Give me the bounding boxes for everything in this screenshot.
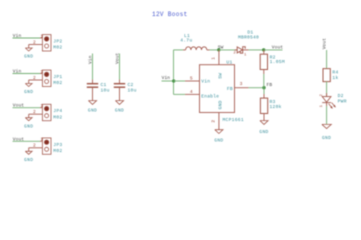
svg-text:1.05M: 1.05M [270, 59, 285, 65]
connector JP3 (M02) [29, 137, 63, 155]
svg-text:JP3: JP3 [53, 142, 62, 148]
svg-text:3: 3 [240, 81, 243, 87]
LED D2 (PWR) [320, 93, 347, 109]
svg-text:GND: GND [24, 89, 33, 95]
net label Vout (vertical) [115, 52, 121, 64]
wire Vin label stub [162, 80, 174, 82]
wire Vin to U1 Vin pin [174, 80, 186, 82]
op-amp U1 (MCP1661 boost converter IC) [185, 50, 249, 130]
svg-text:1: 1 [40, 33, 43, 39]
net label Vin [13, 33, 22, 39]
svg-text:2: 2 [33, 143, 36, 149]
capacitor C2 (10u) [114, 80, 137, 101]
ground for C1 [88, 101, 97, 114]
wire top rail to L1 [174, 49, 184, 51]
wire Vin to U1 Enable pin [174, 93, 186, 95]
svg-text:GND: GND [24, 54, 33, 60]
ground for JP2 [24, 45, 33, 60]
svg-text:FB: FB [227, 86, 233, 92]
svg-text:JP2: JP2 [53, 39, 62, 45]
svg-text:SW: SW [218, 73, 224, 79]
svg-text:Vout: Vout [272, 44, 284, 50]
ground for JP3 [24, 148, 33, 163]
wire Vout node to label [264, 49, 283, 51]
wire Vin to JP1 pin 1 [13, 73, 41, 75]
net label Vin [13, 69, 22, 75]
svg-text:C1: C1 [101, 82, 107, 88]
resistor R2 (1.05M) [260, 50, 285, 74]
svg-text:Vin: Vin [201, 79, 210, 85]
svg-text:5: 5 [190, 75, 193, 81]
ground for C2 [115, 101, 124, 114]
svg-text:PWR: PWR [338, 98, 347, 104]
wire SW node to D1 anode [219, 49, 237, 51]
svg-text:12V Boost: 12V Boost [152, 11, 188, 18]
svg-text:M02: M02 [53, 148, 62, 154]
resistor R3 (120k) [260, 94, 281, 121]
svg-text:GND: GND [24, 123, 33, 129]
ground for D2 [322, 124, 331, 140]
svg-text:1: 1 [40, 103, 43, 109]
wire Vout to JP3 pin 1 [13, 140, 41, 142]
connector JP4 (M02) [29, 103, 63, 121]
svg-text:U1: U1 [226, 59, 232, 65]
node SW junction [217, 48, 220, 51]
svg-text:D2: D2 [338, 93, 344, 99]
wire Vout to C2 [119, 54, 121, 80]
wire D1 cathode to Vout node [249, 49, 264, 51]
svg-text:120k: 120k [270, 104, 282, 110]
svg-text:10u: 10u [128, 88, 137, 94]
node Vin junction [172, 79, 175, 82]
ground for JP4 [24, 114, 33, 129]
connector JP1 (M02) [29, 69, 63, 87]
svg-text:1k: 1k [332, 75, 338, 81]
capacitor C1 (10u) [87, 80, 110, 101]
net label SW [218, 44, 224, 50]
svg-text:MCP1661: MCP1661 [223, 117, 244, 123]
title text 12V Boost [152, 11, 188, 18]
svg-text:MBR0540: MBR0540 [238, 35, 259, 41]
wire U1 FB to FB node [249, 87, 265, 89]
wire Vout to JP4 pin 1 [13, 107, 41, 109]
svg-text:Vout: Vout [321, 38, 327, 50]
svg-text:M02: M02 [53, 45, 62, 51]
wire Vin to C1 [92, 54, 94, 80]
svg-text:GND: GND [322, 135, 331, 141]
svg-text:M02: M02 [53, 80, 62, 86]
svg-text:GND: GND [115, 108, 124, 114]
svg-text:GND: GND [218, 100, 224, 109]
wire L1 to SW node [210, 49, 219, 51]
svg-text:2: 2 [33, 39, 36, 45]
inductor L1 (4.7u) [180, 33, 209, 50]
svg-text:C2: C2 [128, 82, 134, 88]
svg-text:JP4: JP4 [53, 108, 62, 114]
wire R2 to FB node [263, 74, 265, 88]
ground for U1 [214, 130, 223, 144]
svg-text:1: 1 [40, 69, 43, 75]
svg-text:JP1: JP1 [53, 74, 62, 80]
connector JP2 (M02) [29, 33, 63, 51]
net label Vout (vertical at R4) [321, 38, 327, 50]
net label Vout [272, 44, 284, 50]
diode D1 (MBR0540) [233, 30, 259, 58]
svg-text:GND: GND [214, 137, 223, 143]
ground for JP1 [24, 80, 33, 95]
node FB junction [262, 86, 265, 89]
svg-text:GND: GND [24, 157, 33, 163]
svg-text:2: 2 [33, 109, 36, 115]
svg-text:R4: R4 [332, 70, 338, 76]
net label Vout [13, 136, 25, 142]
svg-text:4.7u: 4.7u [180, 38, 192, 44]
node Vout junction [262, 48, 265, 51]
svg-text:1: 1 [211, 57, 217, 60]
svg-text:2: 2 [33, 75, 36, 81]
svg-text:FB: FB [267, 82, 273, 88]
svg-text:1: 1 [40, 137, 43, 143]
net label FB [267, 82, 273, 88]
wire Vout to R4 [326, 50, 328, 69]
svg-text:2: 2 [211, 120, 217, 123]
wire D2 cathode to ground [326, 106, 328, 124]
svg-text:Vin: Vin [162, 75, 171, 81]
svg-text:GND: GND [88, 108, 97, 114]
wire Vin vertical rail [173, 50, 175, 95]
wire Vin to JP2 pin 1 [13, 37, 41, 39]
svg-text:M02: M02 [53, 114, 62, 120]
svg-text:Enable: Enable [201, 94, 219, 100]
wire R4 to D2 anode [326, 82, 328, 97]
wire FB node to R3 [263, 88, 265, 94]
resistor R4 (1k) [323, 69, 339, 82]
svg-text:4: 4 [190, 89, 193, 95]
svg-text:GND: GND [259, 129, 268, 135]
svg-text:10u: 10u [101, 88, 110, 94]
net label Vout [13, 103, 25, 109]
net label Vin (at U1) [162, 75, 171, 81]
net label Vin (vertical) [88, 55, 94, 64]
ground for R3 [259, 121, 268, 136]
